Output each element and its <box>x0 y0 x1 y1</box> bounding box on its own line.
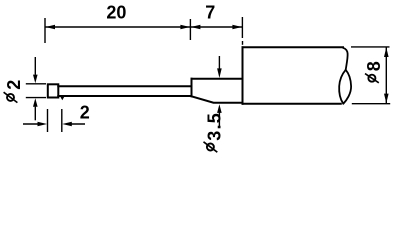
cylinder bottom edge <box>243 103 341 105</box>
upper arrow head (down) <box>33 75 38 84</box>
ext line top <box>351 46 390 48</box>
ext line top <box>26 83 46 85</box>
arrow left-pointing <box>62 122 72 127</box>
arrow up <box>384 47 389 57</box>
collar left edge <box>191 79 193 97</box>
rod top edge <box>58 85 191 87</box>
lower arrow shaft <box>218 112 220 126</box>
dim line left part <box>23 123 41 125</box>
dim line <box>385 47 387 104</box>
svg-text:7: 7 <box>205 3 215 23</box>
ext stub above cylinder corner <box>242 41 244 45</box>
arrow 7 right <box>232 25 242 30</box>
arrow down <box>384 94 389 104</box>
tick middle <box>189 19 191 40</box>
lower arrow head (up) <box>217 104 222 113</box>
break squiggle at cylinder end <box>339 48 351 104</box>
cylinder left edge <box>242 47 244 104</box>
ext line bottom <box>26 97 46 99</box>
arrow 7 left <box>191 25 201 30</box>
collar bottom taper <box>192 96 243 102</box>
svg-text:20: 20 <box>106 2 126 22</box>
upper arrow head (down) <box>217 68 222 78</box>
dim line <box>45 26 242 28</box>
lower arrow head (up) <box>33 98 38 107</box>
lower arrow shaft <box>34 107 36 121</box>
ext line bottom <box>352 103 390 105</box>
upper arrow shaft <box>34 57 36 75</box>
arrow 20 left <box>45 25 55 30</box>
ext line right <box>61 109 63 132</box>
cylinder top edge <box>243 46 344 48</box>
svg-text:8: 8 <box>364 61 384 71</box>
rod bottom edge <box>58 95 191 97</box>
tick left <box>44 18 46 43</box>
tip square (o2 contact tip) <box>48 84 59 97</box>
measuring step arrow under rod <box>60 96 64 100</box>
svg-text:2: 2 <box>80 103 90 123</box>
dim line right part <box>68 123 85 125</box>
collar top edge <box>192 78 243 80</box>
technical drawing: depth gauge probe <box>0 0 400 158</box>
tick right <box>241 17 243 38</box>
svg-text:3.5: 3.5 <box>204 112 224 141</box>
upper arrow shaft <box>218 56 220 69</box>
arrow right-pointing <box>38 122 48 127</box>
ext line left <box>47 109 49 132</box>
svg-text:2: 2 <box>4 80 24 90</box>
arrow 20 right <box>180 25 190 30</box>
